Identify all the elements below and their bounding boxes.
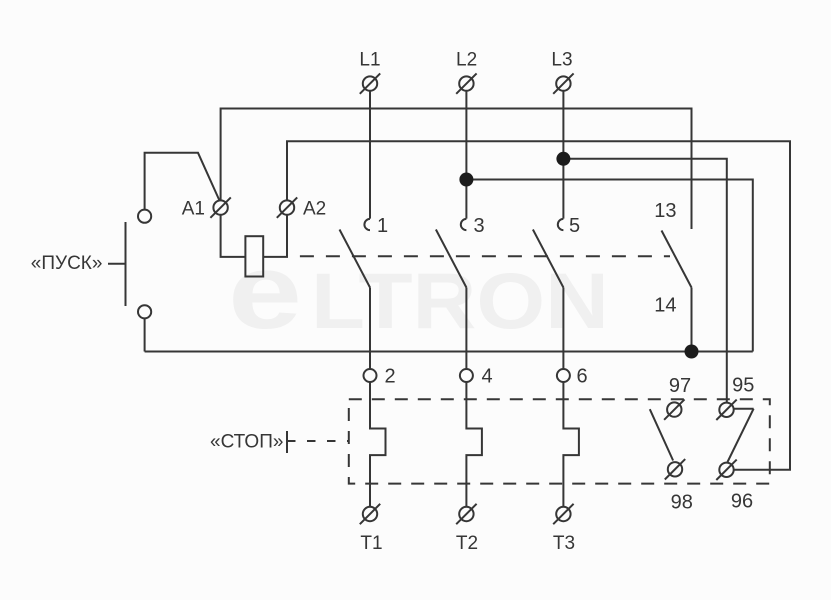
- terminal A1: [210, 197, 230, 217]
- dashed thermal relay box: [349, 399, 770, 483]
- wire contact 1 to terminal 2: [369, 288, 371, 376]
- svg-text:98: 98: [671, 492, 693, 514]
- thermal element column 2 with wires to T2: [466, 376, 482, 514]
- svg-text:T1: T1: [360, 533, 382, 554]
- PUSK button actuator: [108, 263, 126, 265]
- terminal T3: [553, 504, 573, 524]
- svg-text:4: 4: [481, 366, 492, 388]
- terminal 97: [664, 399, 684, 419]
- wire L3 tap to right vertical down to control line: [563, 159, 726, 403]
- wire L3 down to contact 5: [562, 89, 564, 219]
- wire A1 down to coil: [221, 208, 246, 257]
- wire contact 13 to junction: [691, 288, 693, 352]
- wire L2 down to contact 3: [465, 90, 467, 219]
- svg-text:A1: A1: [182, 199, 205, 220]
- svg-text:e: e: [228, 231, 302, 351]
- terminal 6 circle: [557, 369, 570, 382]
- terminal 95: [716, 400, 736, 420]
- svg-text:T2: T2: [456, 533, 478, 554]
- wire contact 5 to terminal 6: [562, 288, 564, 376]
- PUSK button top contact circle: [138, 210, 151, 223]
- svg-text:A2: A2: [303, 199, 326, 220]
- svg-text:T3: T3: [553, 533, 575, 554]
- wire PUSK top terminal to A1: [145, 153, 221, 217]
- terminal L3: [553, 73, 573, 93]
- terminal A2: [277, 197, 297, 217]
- dashed contactor linkage line: [300, 255, 670, 257]
- wire A2 up across right and down to 96: [287, 141, 790, 470]
- contact 3 fixed terminal semicircle: [461, 219, 467, 230]
- wire L1 down to contact 1: [369, 91, 371, 219]
- terminal 96: [716, 460, 736, 480]
- terminal L1: [360, 73, 380, 93]
- svg-text:L2: L2: [456, 50, 477, 71]
- svg-text:L3: L3: [551, 50, 572, 71]
- svg-text:«СТОП»: «СТОП»: [210, 432, 283, 453]
- contact 1 fixed terminal semicircle: [364, 219, 370, 230]
- junction dot on L3 line: [556, 152, 570, 166]
- contact 13 movable blade: [662, 231, 692, 288]
- wire PUSK bottom terminal down: [144, 312, 146, 352]
- STOP label tick: [286, 431, 288, 453]
- PUSK button bottom contact circle: [138, 305, 151, 318]
- watermark ELTRON logo: [228, 231, 609, 351]
- wire coil to A2: [263, 208, 287, 257]
- svg-text:13: 13: [654, 200, 676, 222]
- terminal 4 circle: [460, 369, 473, 382]
- svg-text:L1: L1: [359, 50, 380, 71]
- thermal NC contact 95-96 blade: [728, 409, 754, 462]
- svg-text:6: 6: [576, 366, 587, 388]
- contact 3 movable blade: [436, 230, 467, 288]
- coil K1: [245, 236, 263, 276]
- thermal NO contact 97-98 blade: [650, 409, 673, 460]
- svg-text:97: 97: [669, 375, 691, 397]
- svg-text:1: 1: [377, 215, 388, 237]
- contact 5 movable blade: [533, 230, 564, 288]
- wire A1 up and across to contact 13: [221, 109, 692, 230]
- junction dot on L2 line: [459, 173, 473, 187]
- svg-text:3: 3: [473, 215, 484, 237]
- terminal 98: [665, 459, 685, 479]
- thermal element column 3 with wires to T3: [563, 376, 579, 514]
- svg-text:96: 96: [731, 491, 753, 513]
- junction dot contact 14 to control line: [685, 345, 699, 359]
- thermal element column 1 with wires to T1: [370, 376, 386, 514]
- wire L2 tap to right vertical down to 95: [466, 180, 752, 352]
- terminal T2: [456, 504, 476, 524]
- thermal NC contact 95-96 seat bar: [734, 408, 754, 410]
- dashed line from STOP label to box: [287, 440, 349, 442]
- terminal L2: [456, 73, 476, 93]
- contact 5 fixed terminal semicircle: [558, 219, 564, 230]
- wire contact 3 to terminal 4: [465, 288, 467, 376]
- svg-text:5: 5: [569, 215, 580, 237]
- contact 1 movable blade: [340, 230, 371, 288]
- terminal 2 circle: [364, 369, 377, 382]
- terminal T1: [360, 504, 380, 524]
- svg-text:95: 95: [732, 375, 754, 397]
- wire long horizontal control line: [145, 351, 753, 353]
- svg-text:«ПУСК»: «ПУСК»: [31, 253, 103, 274]
- svg-text:14: 14: [654, 295, 676, 317]
- svg-text:2: 2: [384, 366, 395, 388]
